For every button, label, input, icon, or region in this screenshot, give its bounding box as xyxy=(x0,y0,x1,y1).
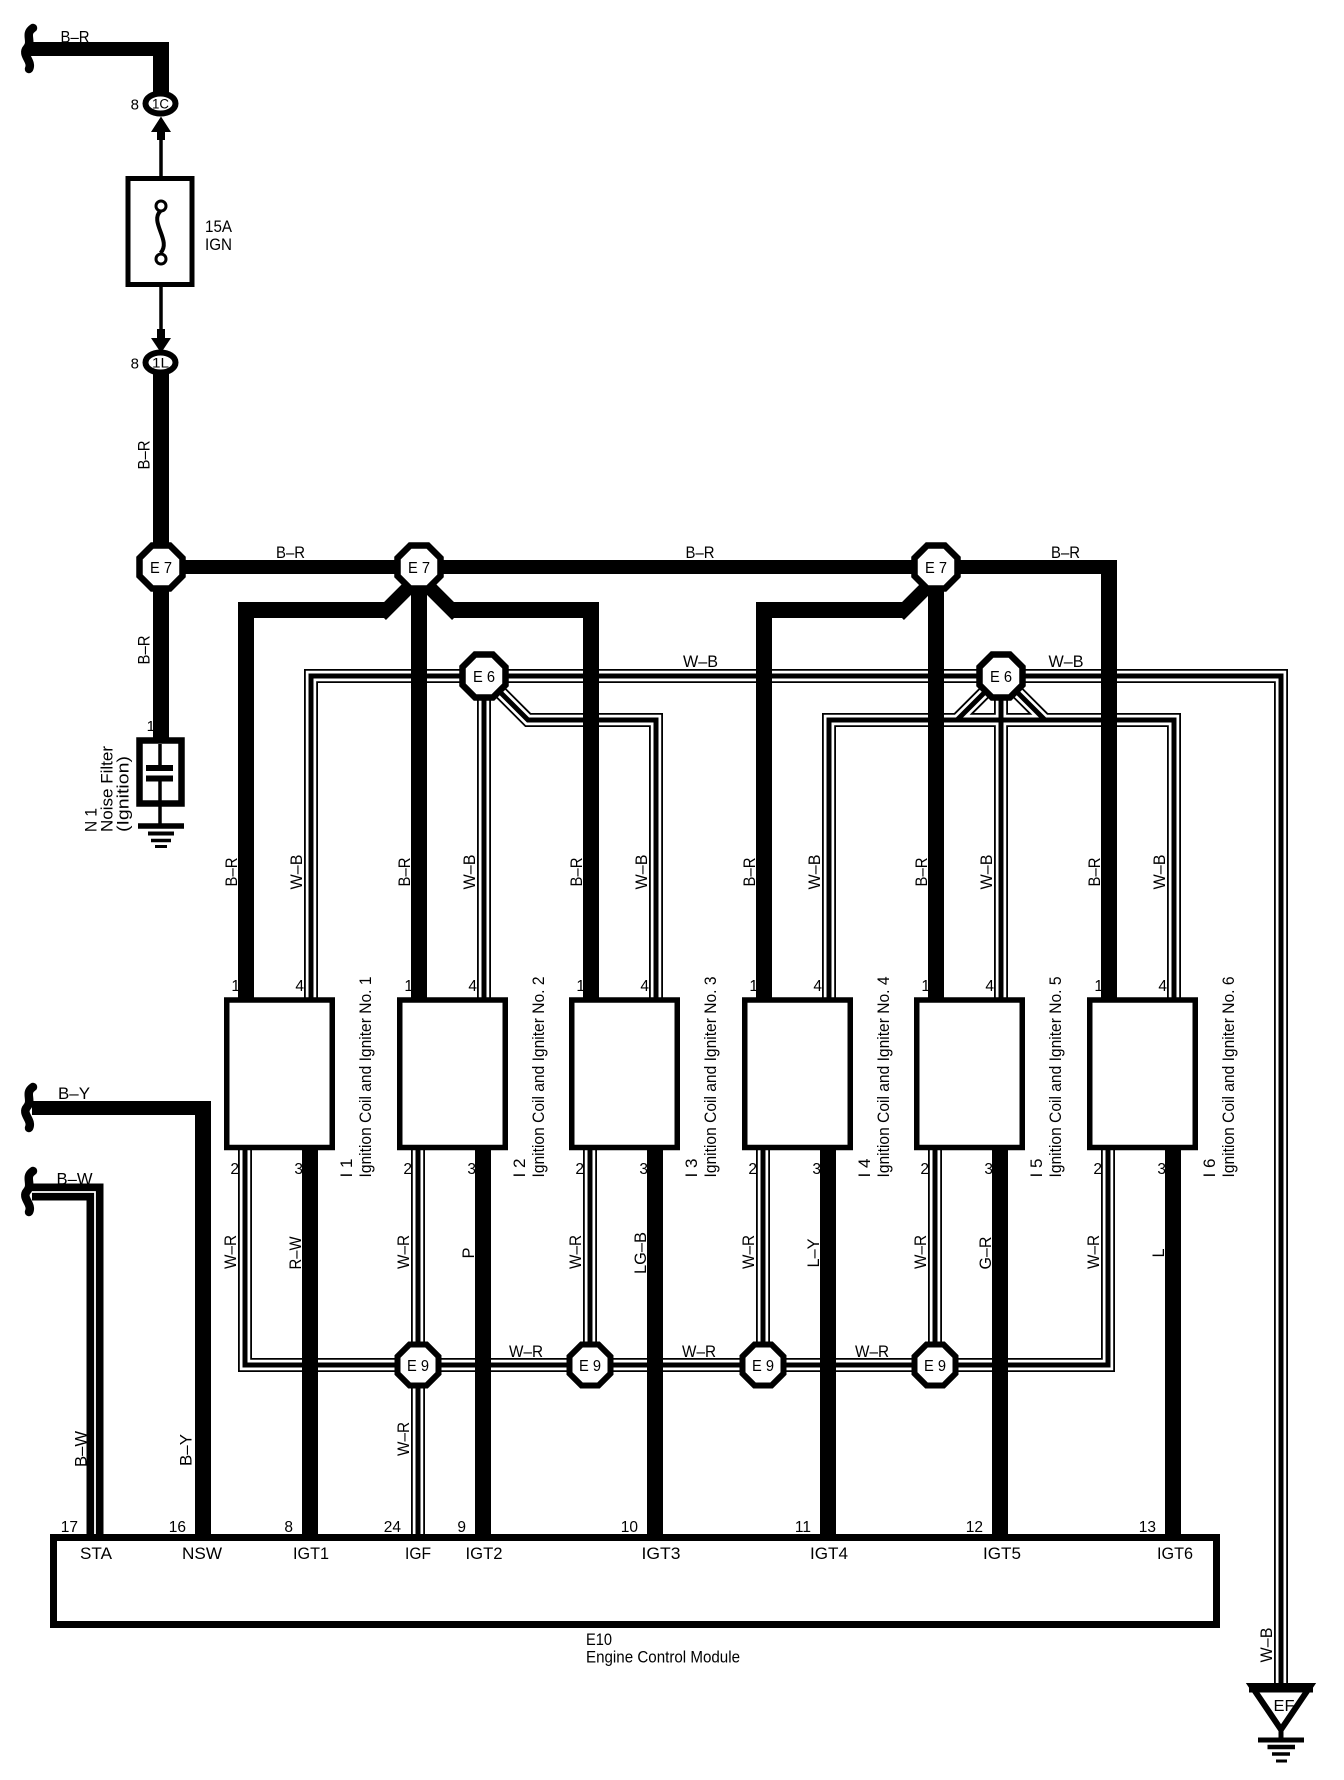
connector arrow into fuse (up) xyxy=(151,117,171,133)
junction connector E9 at x=590 xyxy=(570,1345,611,1386)
svg-text:W–R: W–R xyxy=(567,1235,585,1269)
svg-text:L–Y: L–Y xyxy=(805,1239,823,1268)
fuse 15A IGN xyxy=(128,179,192,285)
svg-text:2: 2 xyxy=(230,1161,239,1178)
svg-text:1: 1 xyxy=(921,978,930,995)
ECM pin names xyxy=(80,1545,1193,1563)
ignition coil and igniter I6 xyxy=(1090,1000,1196,1148)
connector arrow out of fuse (down) xyxy=(157,329,165,339)
svg-text:9: 9 xyxy=(457,1519,466,1536)
svg-text:16: 16 xyxy=(169,1519,186,1536)
svg-text:E 9: E 9 xyxy=(752,1358,774,1375)
svg-text:W–R: W–R xyxy=(395,1422,413,1456)
svg-text:1: 1 xyxy=(576,978,585,995)
svg-text:L: L xyxy=(1150,1249,1168,1258)
junction connector E9 at x=418 xyxy=(398,1345,439,1386)
svg-text:2: 2 xyxy=(1093,1161,1102,1178)
svg-text:B–Y: B–Y xyxy=(178,1434,196,1466)
svg-text:B–R: B–R xyxy=(741,857,759,886)
svg-text:E 9: E 9 xyxy=(924,1358,946,1375)
svg-text:2: 2 xyxy=(403,1161,412,1178)
ground (noise filter) xyxy=(138,826,184,847)
off-page connector brace (B-Y) xyxy=(25,1087,33,1128)
junction connector E7 at x=161 xyxy=(140,546,183,589)
label I 5 Ignition Coil and Igniter No. 5 xyxy=(1028,977,1065,1178)
svg-text:W–R: W–R xyxy=(740,1235,758,1269)
wire R–W I1 pin3 to ECM IGT1 xyxy=(302,1150,318,1540)
svg-text:8: 8 xyxy=(284,1519,293,1536)
svg-text:11: 11 xyxy=(795,1519,811,1536)
svg-text:Ignition Coil and Igniter No.: Ignition Coil and Igniter No. 6 xyxy=(1220,977,1238,1178)
svg-text:E10: E10 xyxy=(586,1631,612,1649)
ignition coil and igniter I5 xyxy=(917,1000,1023,1148)
svg-text:E 6: E 6 xyxy=(990,669,1012,686)
wire P I2 pin3 to ECM IGT2 xyxy=(475,1150,491,1540)
pin labels coil I6 xyxy=(1093,978,1167,1178)
svg-text:I 6: I 6 xyxy=(1201,1159,1219,1178)
svg-text:B–R: B–R xyxy=(136,635,154,664)
svg-text:4: 4 xyxy=(295,978,304,995)
svg-text:E 9: E 9 xyxy=(407,1358,429,1375)
wire B-R branch E7(2) to I1 pin1 xyxy=(238,575,421,1000)
svg-text:W–R: W–R xyxy=(1085,1235,1103,1269)
svg-text:E 7: E 7 xyxy=(925,560,947,577)
svg-text:B–W: B–W xyxy=(57,1171,93,1189)
svg-text:IGF: IGF xyxy=(405,1545,431,1563)
svg-text:4: 4 xyxy=(468,978,477,995)
svg-text:I 2: I 2 xyxy=(511,1159,529,1178)
svg-text:17: 17 xyxy=(61,1519,78,1536)
pin labels coil I4 xyxy=(748,978,822,1178)
wire B-R fuse output 1L to E7 junction xyxy=(153,370,169,575)
svg-text:1: 1 xyxy=(147,718,155,735)
svg-text:I 1: I 1 xyxy=(338,1159,356,1178)
junction connector E9 at x=763 xyxy=(743,1345,784,1386)
svg-text:B–R: B–R xyxy=(61,29,90,47)
svg-text:I 5: I 5 xyxy=(1028,1159,1046,1178)
ECM pin numbers xyxy=(61,1519,1156,1536)
svg-text:8: 8 xyxy=(131,356,139,373)
wire B-R branch E7(3) to I4 pin1 xyxy=(756,575,939,1000)
svg-text:IGT3: IGT3 xyxy=(642,1545,681,1563)
junction connector E7 at x=419 xyxy=(398,546,441,589)
pin labels coil I3 xyxy=(575,978,649,1178)
label I 1 Ignition Coil and Igniter No. 1 xyxy=(338,977,375,1178)
svg-text:B–R: B–R xyxy=(913,857,931,886)
junction connector E7 at x=936 xyxy=(915,546,958,589)
svg-text:E 7: E 7 xyxy=(408,560,430,577)
noise filter N1 box xyxy=(140,741,182,827)
svg-text:E 6: E 6 xyxy=(473,669,495,686)
svg-text:1L: 1L xyxy=(152,356,170,371)
ignition coil and igniter I4 xyxy=(745,1000,851,1148)
connector 1L xyxy=(146,353,176,373)
ignition coil and igniter I3 xyxy=(572,1000,678,1148)
svg-text:Ignition Coil and Igniter No.: Ignition Coil and Igniter No. 2 xyxy=(530,977,548,1178)
svg-text:W–B: W–B xyxy=(288,855,306,890)
svg-text:12: 12 xyxy=(966,1519,983,1536)
connector 1C (oval) feed wire + thin fuse link wire xyxy=(159,131,163,340)
svg-text:3: 3 xyxy=(467,1161,476,1178)
off-page connector brace (B-R) xyxy=(25,28,33,69)
svg-text:IGT5: IGT5 xyxy=(983,1545,1021,1563)
label I 6 Ignition Coil and Igniter No. 6 xyxy=(1201,977,1238,1178)
svg-text:W–R: W–R xyxy=(855,1343,889,1361)
svg-text:W–R: W–R xyxy=(682,1343,716,1361)
svg-text:1: 1 xyxy=(749,978,758,995)
svg-text:W–B: W–B xyxy=(633,855,651,890)
svg-text:B–Y: B–Y xyxy=(58,1085,90,1103)
svg-text:B–R: B–R xyxy=(223,857,241,886)
svg-text:B–R: B–R xyxy=(1051,544,1080,562)
svg-text:3: 3 xyxy=(984,1161,993,1178)
ignition coil and igniter I1 xyxy=(227,1000,333,1148)
label I 4 Ignition Coil and Igniter No. 4 xyxy=(856,977,893,1178)
label I 3 Ignition Coil and Igniter No. 3 xyxy=(683,977,720,1178)
wire net W-R (shielded: coil pin2 bus through E9 junctions to IGF) xyxy=(245,1150,1108,1540)
wire B-R battery feed (top left) xyxy=(29,42,169,92)
svg-text:R–W: R–W xyxy=(287,1236,305,1269)
pin labels coil I5 xyxy=(920,978,994,1178)
svg-text:4: 4 xyxy=(985,978,994,995)
svg-text:W–R: W–R xyxy=(395,1235,413,1269)
svg-text:W–R: W–R xyxy=(509,1343,543,1361)
wire B-R branch E7(2) to I3 pin1 xyxy=(417,575,599,1000)
svg-text:B–R: B–R xyxy=(568,857,586,886)
svg-text:I 3: I 3 xyxy=(683,1159,701,1178)
svg-text:W–B: W–B xyxy=(1258,1628,1276,1663)
svg-text:NSW: NSW xyxy=(182,1545,222,1563)
svg-text:1: 1 xyxy=(231,978,240,995)
wire LG–B I3 pin3 to ECM IGT3 xyxy=(647,1150,663,1540)
svg-text:4: 4 xyxy=(1158,978,1167,995)
svg-text:IGT2: IGT2 xyxy=(466,1545,503,1563)
svg-text:W–B: W–B xyxy=(978,855,996,890)
svg-text:IGT4: IGT4 xyxy=(810,1545,848,1563)
svg-text:15A: 15A xyxy=(205,218,232,236)
svg-text:3: 3 xyxy=(1157,1161,1166,1178)
svg-text:2: 2 xyxy=(575,1161,584,1178)
svg-text:Ignition Coil and Igniter No.: Ignition Coil and Igniter No. 1 xyxy=(357,977,375,1178)
svg-text:Ignition Coil and Igniter No.: Ignition Coil and Igniter No. 4 xyxy=(875,977,893,1178)
svg-text:3: 3 xyxy=(639,1161,648,1178)
label I 2 Ignition Coil and Igniter No. 2 xyxy=(511,977,548,1178)
svg-text:W–B: W–B xyxy=(1049,653,1084,671)
svg-text:3: 3 xyxy=(294,1161,303,1178)
svg-text:Engine Control Module: Engine Control Module xyxy=(586,1649,740,1667)
wire net W-B (shielded: E6 junctions, coil pin4 feeds, EF ground drop) xyxy=(311,676,1281,1686)
svg-text:(Ignition): (Ignition) xyxy=(115,756,133,832)
svg-text:2: 2 xyxy=(748,1161,757,1178)
svg-text:EF: EF xyxy=(1274,1698,1295,1715)
svg-text:10: 10 xyxy=(621,1519,639,1536)
wire L I6 pin3 to ECM IGT6 xyxy=(1165,1150,1181,1540)
svg-text:Ignition Coil and Igniter No.: Ignition Coil and Igniter No. 5 xyxy=(1047,977,1065,1178)
svg-text:W–B: W–B xyxy=(461,855,479,890)
svg-text:B–R: B–R xyxy=(136,440,154,469)
svg-text:B–R: B–R xyxy=(276,544,305,562)
off-page connector brace (B-W) xyxy=(25,1171,33,1212)
wire B-R E7(2) to I2 pin1 xyxy=(411,567,427,1000)
svg-text:1C: 1C xyxy=(152,97,169,112)
ground EF (triangle) xyxy=(1249,1686,1313,1761)
wire L–Y I4 pin3 to ECM IGT4 xyxy=(820,1150,836,1540)
svg-text:W–B: W–B xyxy=(806,855,824,890)
connector 1C xyxy=(146,94,176,114)
wire B-R E7(3) to I5 pin1 xyxy=(928,567,944,1000)
svg-text:W–R: W–R xyxy=(222,1235,240,1269)
svg-text:1: 1 xyxy=(1094,978,1103,995)
wire B-W from starter relay to ECM STA xyxy=(32,1192,95,1540)
junction connector E6 at x=1001 xyxy=(980,655,1023,698)
engine control module E10 box xyxy=(54,1538,1217,1625)
wire B-R E7 to noise filter xyxy=(153,567,169,741)
label E10 Engine Control Module xyxy=(586,1631,740,1667)
svg-text:P: P xyxy=(460,1248,478,1259)
svg-text:STA: STA xyxy=(80,1545,112,1563)
svg-text:E 9: E 9 xyxy=(579,1358,601,1375)
svg-text:4: 4 xyxy=(640,978,649,995)
svg-text:IGT6: IGT6 xyxy=(1157,1545,1193,1563)
pin labels coil I1 xyxy=(230,978,304,1178)
svg-text:B–R: B–R xyxy=(1086,857,1104,886)
svg-text:4: 4 xyxy=(813,978,822,995)
svg-text:W–R: W–R xyxy=(912,1235,930,1269)
svg-text:W–B: W–B xyxy=(1151,855,1169,890)
svg-text:3: 3 xyxy=(812,1161,821,1178)
svg-text:8: 8 xyxy=(131,97,139,114)
wire B-R main bus E7 row xyxy=(153,567,1117,1000)
svg-text:13: 13 xyxy=(1139,1519,1156,1536)
junction connector E6 at x=484 xyxy=(463,655,506,698)
ignition coil and igniter I2 xyxy=(400,1000,506,1148)
svg-text:E 7: E 7 xyxy=(150,560,172,577)
svg-text:LG–B: LG–B xyxy=(632,1232,650,1274)
svg-text:B–R: B–R xyxy=(396,857,414,886)
svg-text:IGT1: IGT1 xyxy=(293,1545,329,1563)
svg-text:B–W: B–W xyxy=(73,1431,91,1467)
svg-text:24: 24 xyxy=(384,1519,402,1536)
svg-text:1: 1 xyxy=(404,978,413,995)
svg-text:Ignition Coil and Igniter No.: Ignition Coil and Igniter No. 3 xyxy=(702,977,720,1178)
pin labels coil I2 xyxy=(403,978,477,1178)
svg-text:I 4: I 4 xyxy=(856,1159,874,1178)
wire G–R I5 pin3 to ECM IGT5 xyxy=(992,1150,1008,1540)
svg-text:B–R: B–R xyxy=(686,544,715,562)
svg-text:IGN: IGN xyxy=(205,236,232,254)
svg-text:G–R: G–R xyxy=(977,1236,995,1269)
wire B-Y from park/neutral switch to ECM NSW xyxy=(32,1108,211,1540)
svg-text:W–B: W–B xyxy=(683,653,718,671)
junction connector E9 at x=935 xyxy=(915,1345,956,1386)
svg-text:2: 2 xyxy=(920,1161,929,1178)
